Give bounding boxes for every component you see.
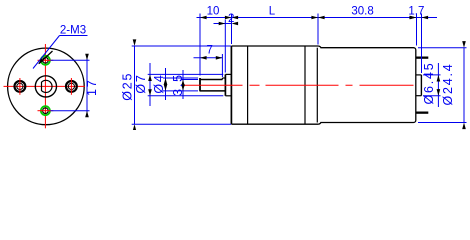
- ext Ø6.45 bottom: [423, 95, 441, 97]
- dim 10 arrows: [200, 16, 207, 20]
- gearbox bottom: [231, 123, 318, 125]
- M3 hole top (green): [41, 56, 50, 65]
- dim Ø7 line: [149, 63, 151, 106]
- M3 hole bottom centerline horizontal: [38, 110, 54, 112]
- svg-text:17: 17: [85, 79, 99, 97]
- ext line gearbox face x=231.5: [231, 14, 233, 45]
- ext line flat end x=222.4: [221, 54, 223, 77]
- ext line boss face x=225.3: [224, 20, 226, 73]
- dim Ø6.45 line: [437, 63, 439, 107]
- dim 30.8 arrows: [318, 16, 325, 20]
- leader 2-M3 arrow segment: [39, 51, 53, 64]
- dim Ø4 line: [165, 68, 167, 100]
- shaft tip edge: [199, 78, 201, 91]
- side view centerline (red dashed): [184, 84, 414, 86]
- ext Ø25 top: [132, 45, 231, 47]
- svg-text:10: 10: [207, 5, 220, 17]
- dim 17 extension top: [51, 59, 90, 61]
- dim 17 extension bottom: [51, 110, 90, 112]
- dim 2 arrows (outside): [219, 22, 226, 26]
- shaft full top line: [222, 77, 225, 79]
- svg-text:Ø6.45: Ø6.45: [422, 61, 436, 104]
- svg-text:2: 2: [228, 13, 234, 25]
- dim 7 arrows: [200, 56, 207, 60]
- screw left centerline vertical: [19, 78, 21, 95]
- rear boss face: [420, 75, 422, 96]
- screw right: [66, 81, 77, 92]
- svg-text:Ø24.4: Ø24.4: [441, 62, 455, 105]
- gearbox rear seam: [304, 46, 306, 124]
- boss bottom: [225, 95, 231, 97]
- shaft bottom line: [200, 90, 226, 92]
- ext Ø7 bottom: [148, 95, 224, 97]
- screw left: [15, 81, 26, 92]
- top dim line: [197, 17, 438, 19]
- motor flange line: [316, 48, 318, 123]
- leader 2-M3 underline: [60, 35, 88, 37]
- M3 hole bottom (green): [41, 106, 50, 115]
- dim L arrows: [232, 16, 239, 20]
- boss top: [225, 73, 231, 75]
- shaft flat step: [221, 78, 223, 80]
- boss face: [224, 74, 226, 95]
- ext Ø24.4 bottom: [418, 122, 467, 124]
- svg-text:L: L: [269, 5, 276, 17]
- dim Ø25 line: [134, 46, 136, 124]
- screw right centerline vertical: [70, 78, 72, 95]
- ext line shaft tip x=200: [199, 14, 201, 76]
- dim 1.7 arrows (outside): [410, 16, 417, 20]
- ext line can rear x=416.5: [416, 14, 418, 46]
- leader 2-M3 diagonal: [33, 36, 60, 69]
- boss circle Ø7: [35, 76, 56, 97]
- ext Ø6.45 top: [423, 74, 441, 76]
- centerline horizontal (red): [4, 85, 85, 87]
- dim 17 line: [86, 55, 88, 118]
- ext Ø4+3.5 bottom: [163, 90, 198, 92]
- svg-text:2-M3: 2-M3: [60, 25, 86, 37]
- ext Ø4 top: [163, 77, 198, 79]
- svg-text:Ø7: Ø7: [134, 73, 148, 93]
- dim 7 line: [194, 57, 223, 59]
- svg-text:1.7: 1.7: [408, 5, 424, 17]
- motor can outline: [319, 46, 416, 124]
- svg-text:3.5: 3.5: [171, 73, 185, 96]
- centerline vertical (red): [44, 44, 46, 128]
- svg-text:Ø4: Ø4: [152, 73, 166, 93]
- dim Ø24.4 line: [463, 48, 465, 123]
- dim 2 line: [214, 23, 232, 25]
- gearbox top: [231, 45, 318, 47]
- rear boss top: [416, 74, 422, 76]
- gearbox body circle Ø25: [8, 48, 85, 125]
- ext line rear boss x=421.5: [421, 14, 423, 74]
- M3 hole top centerline horizontal: [38, 59, 54, 61]
- rear boss bottom: [416, 95, 422, 97]
- ext 3.5 top: [181, 79, 198, 81]
- shaft circle Ø4 with flat: [42, 80, 53, 92]
- ext Ø24.4 top: [418, 47, 467, 49]
- terminal tab lower: [416, 112, 429, 114]
- shaft flat top line: [200, 79, 223, 81]
- ext Ø25 bottom: [132, 123, 231, 125]
- svg-text:Ø25: Ø25: [121, 72, 135, 101]
- gearbox front plate seam: [247, 46, 249, 124]
- dim 3.5 line: [182, 70, 184, 99]
- gearbox front face: [230, 46, 232, 124]
- terminal tab upper: [416, 57, 429, 59]
- ext line motor face x=318: [317, 14, 319, 45]
- ext Ø7 top: [148, 73, 224, 75]
- svg-text:30.8: 30.8: [351, 5, 373, 17]
